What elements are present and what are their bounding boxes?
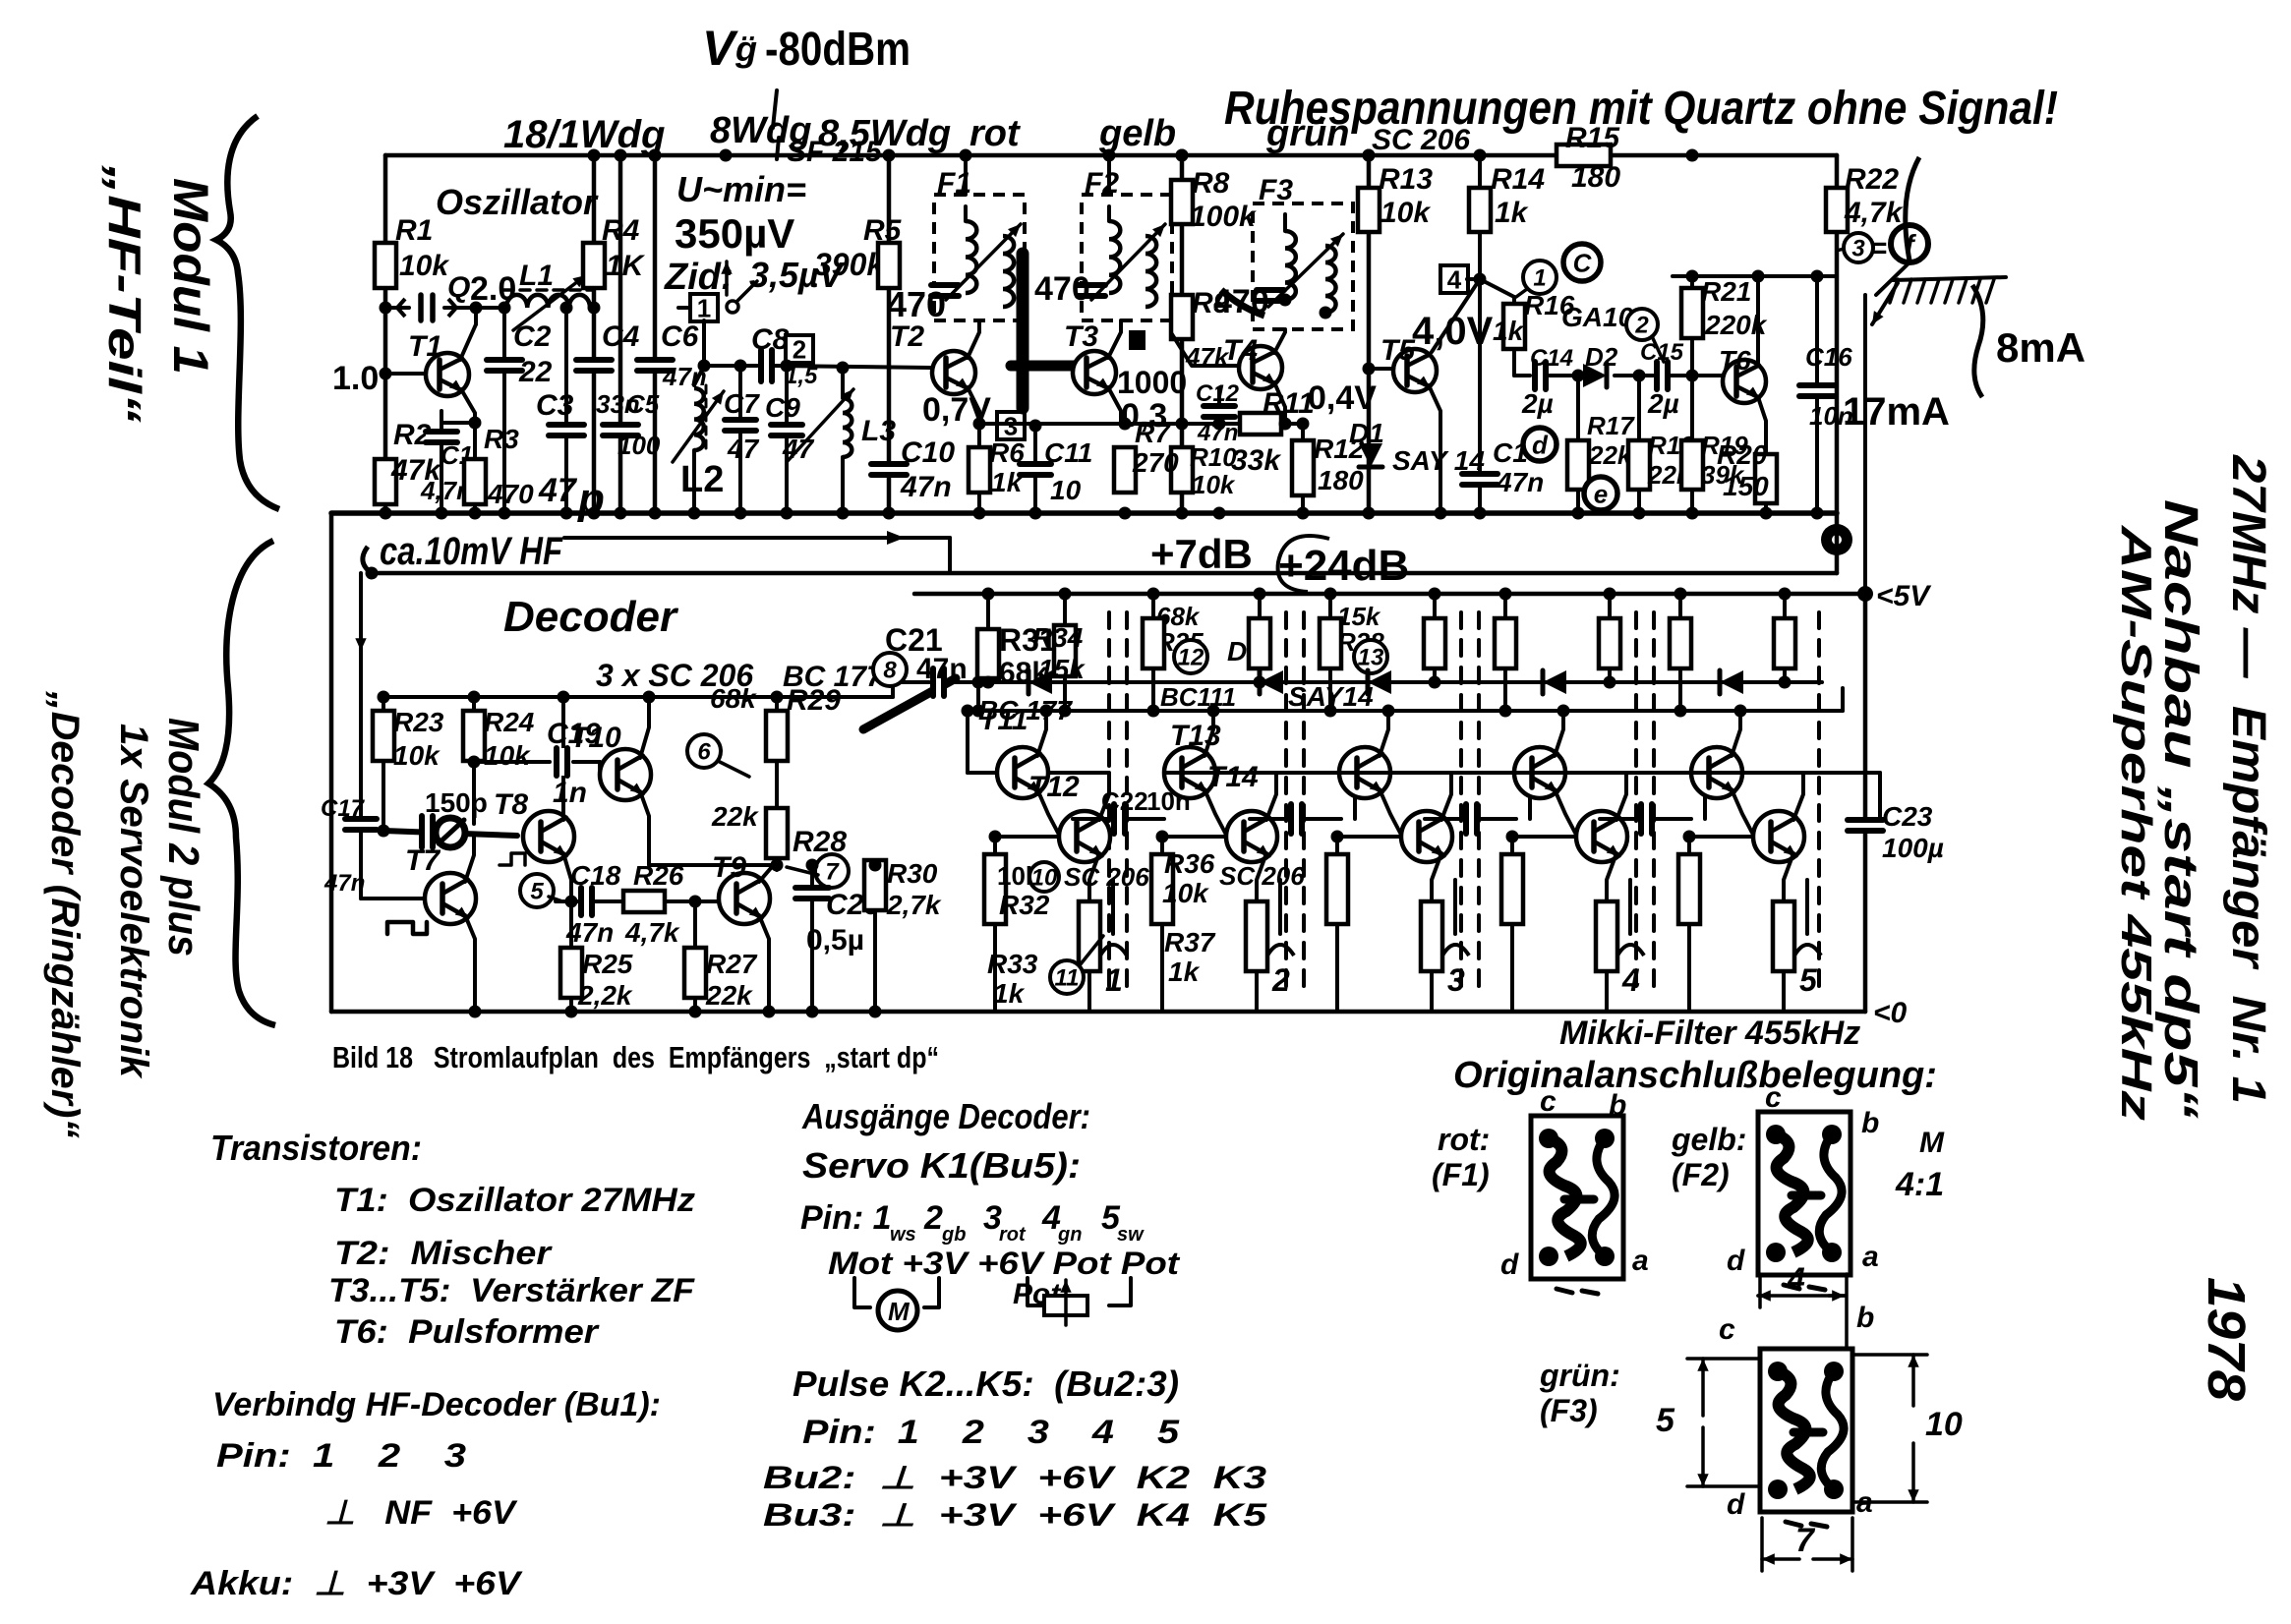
svg-text:5: 5 — [530, 879, 544, 905]
svg-text:1000: 1000 — [1117, 365, 1187, 400]
transistor lower stage 2 — [1226, 811, 1277, 862]
svg-text:Pin: 1 2 3 4 5: Pin: 1 2 3 4 5 — [802, 1414, 1180, 1451]
circled d — [1523, 428, 1557, 461]
wire thick link to C21 — [863, 678, 956, 729]
svg-text:4:1: 4:1 — [1895, 1166, 1944, 1203]
svg-text:C18: C18 — [570, 860, 621, 891]
svg-text:<0: <0 — [1873, 997, 1908, 1029]
circled 11 — [1050, 960, 1084, 994]
svg-text:22k: 22k — [711, 801, 759, 832]
wire ring diode bus — [978, 680, 1822, 684]
svg-text:U~min=: U~min= — [676, 169, 806, 209]
svg-text:rot:: rot: — [1438, 1122, 1490, 1157]
wire T8 collector — [561, 697, 565, 820]
capacitor 150p scribble — [419, 816, 435, 847]
left brace module 1 — [216, 116, 279, 509]
resistor R24 — [472, 697, 476, 711]
measure point box 1 — [678, 306, 691, 310]
svg-text:Mot +3V +6V Pot Pot: Mot +3V +6V Pot Pot — [828, 1246, 1181, 1281]
svg-text:T11: T11 — [979, 704, 1028, 736]
wire circled1 tap — [1516, 289, 1527, 297]
stage bias resistor 2 — [1160, 837, 1164, 854]
transistor lower stage 1 — [1059, 811, 1110, 862]
svg-text:1: 1 — [1533, 265, 1546, 292]
output pin 1 wire — [1111, 880, 1115, 934]
stage emitter resistor 3 — [1421, 901, 1442, 971]
wire lower emitter stage 5 — [1784, 853, 1793, 901]
wire F1 top connection — [964, 155, 968, 195]
svg-text:Akku: ⊥ +3V +6V: Akku: ⊥ +3V +6V — [190, 1565, 524, 1602]
svg-text:12: 12 — [1178, 645, 1204, 671]
F1 internal capacitor — [931, 282, 959, 298]
svg-text:2: 2 — [1271, 962, 1290, 998]
svg-text:R34: R34 — [1032, 622, 1084, 653]
wire upper base stage 5 — [1691, 771, 1880, 775]
svg-text:C10: C10 — [901, 436, 955, 469]
svg-text:2µ: 2µ — [1521, 388, 1554, 419]
marker blob on T3 collector — [1129, 330, 1145, 350]
svg-text:C9: C9 — [765, 392, 800, 423]
pullup resistor left of boundary 3 — [1433, 594, 1437, 618]
svg-text:R27: R27 — [706, 949, 758, 979]
coupling capacitor stage 3 — [1425, 817, 1461, 821]
wire decoder top feed line — [372, 571, 1837, 576]
svg-text:T3...T5: Verstärker ZF: T3...T5: Verstärker ZF — [328, 1272, 695, 1309]
svg-text:T14: T14 — [1207, 761, 1259, 793]
circled f — [1891, 225, 1928, 262]
wire T1 base — [385, 372, 426, 376]
inductor L3 — [841, 368, 845, 398]
svg-text:-80dBm: -80dBm — [765, 24, 911, 76]
output pin 4 wire — [1628, 880, 1632, 934]
resistor R27 — [693, 901, 697, 948]
dashed boundary stage 1 — [1107, 612, 1111, 993]
measure point box 4 — [1440, 264, 1468, 294]
transistor upper stage 2 — [1164, 747, 1215, 798]
svg-text:Pin: 1: Pin: 1 — [800, 1199, 892, 1237]
transistor T3 — [1073, 351, 1116, 394]
svg-text:c: c — [1719, 1313, 1735, 1346]
svg-text:a: a — [1632, 1245, 1649, 1277]
svg-text:7: 7 — [1795, 1522, 1816, 1559]
svg-text:T2: Mischer: T2: Mischer — [334, 1235, 553, 1272]
svg-text:T13: T13 — [1170, 720, 1221, 752]
svg-text:M: M — [1919, 1127, 1945, 1159]
coupling capacitor stage 4 — [1600, 817, 1636, 821]
wire upper emitter stage 5 — [1732, 789, 1753, 835]
svg-text:8: 8 — [883, 658, 897, 684]
svg-text:C12: C12 — [1196, 380, 1240, 407]
wire input feed column — [359, 573, 363, 816]
hatch symbol — [1893, 277, 2006, 280]
svg-text:SC 206: SC 206 — [1064, 862, 1149, 892]
svg-text:4: 4 — [1447, 264, 1462, 294]
wire upper base stage 3 — [1339, 771, 1530, 775]
svg-text:b: b — [1861, 1107, 1879, 1139]
wire R21 column — [1690, 276, 1694, 288]
filter F2 footprint box — [1758, 1112, 1850, 1275]
svg-text:ws: ws — [890, 1224, 916, 1246]
svg-text:b: b — [1856, 1302, 1874, 1334]
svg-text:T2: T2 — [890, 320, 924, 353]
stage emitter resistor 1 — [1079, 901, 1100, 971]
wire upper collector stage 1 — [1037, 711, 1046, 756]
svg-text:47n: 47n — [323, 870, 365, 897]
wire upper collector stage 5 — [1732, 711, 1740, 756]
svg-text:„HF-Teil“: „HF-Teil“ — [99, 164, 150, 423]
svg-text:100µ: 100µ — [1882, 833, 1944, 863]
output pin 5 wire — [1805, 880, 1809, 934]
wire upper base stage 1 — [968, 771, 997, 775]
svg-text:C11: C11 — [1044, 437, 1092, 468]
svg-text:47n: 47n — [1496, 467, 1544, 497]
svg-text:R17: R17 — [1587, 411, 1635, 440]
capacitor C9 — [785, 366, 789, 422]
svg-text:4,7k: 4,7k — [624, 917, 680, 948]
svg-text:47n: 47n — [1197, 420, 1238, 446]
circled 6 — [687, 734, 721, 768]
svg-text:AM-Superhet 455kHz: AM-Superhet 455kHz — [2112, 525, 2160, 1121]
svg-text:Q: Q — [447, 271, 470, 304]
wire T5 collector — [1432, 279, 1480, 352]
motor symbol — [854, 1278, 870, 1307]
resistor R26 (horizontal) — [623, 891, 665, 912]
svg-text:1k: 1k — [1168, 957, 1201, 987]
svg-text:d: d — [1532, 430, 1549, 459]
dashed boundary stage 4 — [1634, 612, 1638, 993]
svg-text:rot: rot — [999, 1224, 1027, 1246]
F3 secondary coil — [1325, 246, 1336, 313]
crystal Q1 — [385, 306, 409, 310]
circled e — [1584, 477, 1617, 510]
capacitor C5 — [603, 422, 638, 437]
svg-text:sw: sw — [1117, 1224, 1145, 1246]
F1 secondary coil — [1003, 236, 1014, 307]
circled 2 — [1626, 309, 1658, 340]
pullup resistor right of boundary 1 — [1151, 594, 1155, 618]
svg-text:2,2k: 2,2k — [577, 980, 633, 1011]
wire C21 row — [893, 680, 929, 684]
output pin 4 hook — [1617, 945, 1644, 956]
stage bias resistor 4 — [1510, 837, 1514, 854]
svg-text:5: 5 — [1656, 1402, 1675, 1439]
svg-text:T1: Oszillator 27MHz: T1: Oszillator 27MHz — [334, 1182, 695, 1219]
output pin 3 wire — [1453, 880, 1457, 934]
F3 dimension 10 — [1911, 1355, 1915, 1406]
svg-text:g̈: g̈ — [734, 29, 757, 69]
svg-text:10: 10 — [1031, 865, 1058, 892]
svg-text:13: 13 — [1358, 645, 1384, 671]
circled 1 — [1523, 261, 1557, 294]
svg-text:Nachbau „start dp5“: Nachbau „start dp5“ — [2154, 499, 2206, 1119]
svg-text:22: 22 — [518, 356, 553, 388]
svg-text:Modul 2 plus: Modul 2 plus — [159, 718, 207, 957]
wire 5V supply rail — [914, 592, 1865, 597]
stage bias resistor 3 — [1335, 837, 1339, 854]
resistor R25 — [569, 901, 573, 948]
wire to antenna ground — [1876, 262, 1909, 295]
capacitor C12 — [1217, 388, 1221, 403]
svg-text:4: 4 — [1621, 962, 1640, 998]
svg-text:47n: 47n — [916, 653, 968, 685]
resistor R16 — [1503, 304, 1525, 349]
capacitor C6 — [637, 357, 673, 373]
svg-text:R21: R21 — [1701, 276, 1751, 307]
svg-text:R10: R10 — [1190, 442, 1237, 472]
transistor T10 — [600, 749, 651, 800]
potentiometer symbol — [1028, 1278, 1042, 1305]
output pin 5 hook — [1794, 945, 1821, 956]
wire lower base stage 1 — [995, 835, 1059, 839]
capacitor C11 — [1033, 426, 1037, 461]
svg-text:gn: gn — [1057, 1224, 1082, 1246]
F2 primary coil — [1107, 206, 1111, 221]
svg-text:Decoder: Decoder — [503, 593, 679, 641]
svg-text:C3: C3 — [536, 389, 574, 422]
wire T6 collector row — [1673, 274, 1837, 278]
resistor R28 22k — [775, 761, 779, 808]
svg-text:M: M — [888, 1297, 911, 1326]
svg-text:R25: R25 — [582, 949, 633, 979]
resistor R6 — [969, 447, 990, 493]
svg-text:10k: 10k — [484, 740, 531, 771]
svg-text:10k: 10k — [399, 250, 449, 282]
wire tap line with arrow — [564, 536, 950, 540]
left brace module 2 — [208, 541, 275, 1025]
svg-text:R33: R33 — [987, 949, 1038, 979]
filter F3 footprint box — [1760, 1349, 1852, 1512]
resistor R3 — [464, 459, 486, 504]
capacitor C17 — [345, 816, 377, 832]
svg-text:180: 180 — [1318, 465, 1364, 495]
tick marks below Vg — [773, 90, 777, 128]
wire T1 emitter — [461, 389, 475, 423]
F2 internal capacitor — [1078, 282, 1105, 298]
svg-text:Bu3: ⊥ +3V +6V K4 K5: Bu3: ⊥ +3V +6V K4 K5 — [763, 1497, 1268, 1533]
svg-text:Originalanschlußbelegung:: Originalanschlußbelegung: — [1453, 1055, 1937, 1096]
coupling capacitor stage 2 — [1250, 817, 1286, 821]
svg-text:1k: 1k — [991, 467, 1024, 497]
capacitor C7 — [738, 366, 742, 417]
measure point box 3 — [997, 411, 1025, 440]
arrow through L1 (variable) — [513, 275, 586, 330]
F1 primary coil — [964, 206, 968, 221]
stage emitter resistor 5 — [1773, 901, 1794, 971]
transistor lower stage 3 — [1401, 811, 1452, 862]
transistor upper stage 5 — [1691, 747, 1742, 798]
resistor R30 — [873, 863, 877, 867]
circled 7 — [815, 854, 849, 888]
svg-text:8mA: 8mA — [1996, 324, 2085, 371]
wire upper collector stage 4 — [1555, 711, 1563, 756]
wire outer left border — [329, 513, 334, 1012]
svg-text:a: a — [1862, 1241, 1879, 1273]
circled 8 — [873, 653, 907, 686]
svg-text:<5V: <5V — [1876, 580, 1932, 612]
resistor R21 — [1681, 288, 1703, 338]
output pin 3 hook — [1442, 945, 1469, 956]
pullup resistor left of boundary 2 — [1258, 594, 1262, 618]
dashed boundary stage 3 — [1459, 612, 1463, 993]
diode stage 5 — [1720, 670, 1743, 694]
svg-text:1x Servoelektronik: 1x Servoelektronik — [112, 724, 155, 1079]
wire T3 collector — [1108, 320, 1121, 358]
wire upper collector stage 3 — [1380, 711, 1388, 756]
svg-text:1k: 1k — [993, 978, 1026, 1009]
svg-text:Oszillator: Oszillator — [436, 182, 599, 222]
wire R13/D1 branch — [1367, 155, 1372, 513]
wire lower base stage 4 — [1512, 835, 1576, 839]
svg-text:2,7k: 2,7k — [886, 890, 942, 920]
resistor R2 — [375, 459, 396, 504]
svg-text:grün:: grün: — [1539, 1358, 1620, 1393]
svg-text:47: 47 — [538, 472, 578, 509]
wire T7 emitter — [465, 915, 475, 1012]
svg-text:rot: rot — [969, 113, 1021, 154]
resistor R15 (in series with top rail) — [1557, 145, 1611, 166]
junction dots on top rail — [649, 149, 662, 162]
svg-text:10n: 10n — [1146, 786, 1191, 816]
resistor R14 — [1469, 188, 1491, 232]
F3 dimension 7 — [1762, 1557, 1799, 1561]
diode D2 — [1583, 364, 1607, 387]
filter F2 dashed box — [1082, 195, 1172, 320]
svg-text:R3: R3 — [484, 424, 519, 454]
stage emitter resistor 4 — [1596, 901, 1617, 971]
wire lower collector stage 1 — [1048, 773, 1109, 820]
svg-text:470: 470 — [487, 479, 534, 509]
svg-text:L2: L2 — [680, 459, 724, 500]
svg-text:10k: 10k — [1162, 878, 1209, 908]
capacitor C8 — [758, 350, 774, 381]
wire circled2 tap — [1652, 336, 1664, 362]
svg-text:R36: R36 — [1164, 848, 1215, 879]
capacitor C19 — [554, 748, 569, 776]
wire R8 branch — [1180, 155, 1185, 513]
arrow through F2 — [1091, 224, 1165, 300]
svg-text:b: b — [1609, 1089, 1626, 1122]
wire T3 emitter — [1108, 387, 1121, 424]
output pin 1 hook — [1100, 945, 1127, 956]
svg-text:18/1Wdg: 18/1Wdg — [503, 113, 665, 156]
svg-text:3: 3 — [1851, 236, 1865, 262]
capacitor C16 — [1815, 276, 1819, 382]
diode stage 4 — [1543, 670, 1566, 694]
svg-text:D1: D1 — [1349, 418, 1384, 448]
capacitor C3 — [564, 308, 568, 422]
junction dots on bottom bus — [380, 507, 392, 520]
svg-text:33k: 33k — [1231, 444, 1281, 477]
svg-text:7: 7 — [825, 859, 840, 886]
F3 dimension 5 — [1701, 1359, 1705, 1416]
wire vertical C6 branch — [653, 155, 658, 513]
wire T10 collector — [640, 697, 649, 758]
capacitor C23 — [1848, 817, 1883, 833]
svg-text:1978: 1978 — [2197, 1277, 2256, 1401]
transistor T5 — [1393, 349, 1437, 392]
svg-text:F3: F3 — [1259, 174, 1293, 206]
svg-text:R23: R23 — [393, 707, 444, 737]
pulse symbol at T8 — [499, 853, 525, 865]
pullup resistor left of boundary 4 — [1608, 594, 1612, 618]
svg-text:Ausgänge Decoder:: Ausgänge Decoder: — [801, 1096, 1090, 1136]
svg-text:180: 180 — [1571, 161, 1620, 194]
svg-text:V: V — [702, 21, 738, 76]
svg-text:(F1): (F1) — [1432, 1157, 1490, 1192]
wire detector row — [1512, 349, 1516, 376]
svg-text:e: e — [1594, 479, 1608, 508]
wire T10 base — [598, 771, 602, 775]
wire upper collector stage 2 — [1204, 711, 1213, 756]
F3 internal capacitor — [1257, 287, 1284, 303]
svg-text:T7: T7 — [405, 844, 441, 877]
svg-text:d: d — [1727, 1488, 1745, 1521]
svg-text:L3: L3 — [861, 415, 896, 447]
wire left border of module 1 — [383, 155, 388, 513]
F3 dimension 4 — [1758, 1294, 1768, 1298]
resistor R1 — [375, 243, 396, 288]
wire junction to R16 — [1480, 279, 1514, 297]
resistor R9 — [1171, 295, 1193, 339]
svg-text:3: 3 — [1447, 962, 1465, 998]
svg-text:5: 5 — [1799, 962, 1818, 998]
capacitor C10 — [871, 461, 907, 477]
wire upper emitter stage 2 — [1204, 789, 1226, 835]
svg-text:Mikki-Filter 455kHz: Mikki-Filter 455kHz — [1559, 1015, 1860, 1052]
wire lower emitter stage 2 — [1257, 853, 1266, 901]
wire lower collector stage 5 — [1742, 773, 1803, 820]
svg-text:R32: R32 — [999, 890, 1050, 920]
capacitor C4 — [576, 357, 612, 373]
pullup resistor right of boundary 4 — [1678, 594, 1682, 618]
svg-text:Transistoren:: Transistoren: — [210, 1128, 422, 1168]
resistor R20 — [1755, 454, 1777, 503]
svg-text:47: 47 — [727, 434, 760, 464]
wire T7 collector — [465, 834, 474, 882]
dashed boundary stage 5 — [1817, 612, 1821, 993]
wire F2 top connection — [1107, 155, 1111, 195]
diode stage 3 — [1368, 670, 1391, 694]
circled 13 — [1354, 640, 1387, 673]
svg-text:1: 1 — [1105, 962, 1123, 998]
svg-text:d: d — [1500, 1248, 1519, 1281]
svg-text:68k: 68k — [710, 683, 757, 714]
svg-text:22k: 22k — [705, 980, 753, 1011]
wire T4 emitter — [1274, 382, 1285, 424]
svg-text:C16: C16 — [1805, 342, 1852, 372]
wire T9 emitter — [759, 915, 769, 1012]
wire T1 collector to node — [460, 324, 476, 360]
svg-text:Pulse K2...K5: (Bu2:3): Pulse K2...K5: (Bu2:3) — [793, 1363, 1179, 1404]
svg-text:C22: C22 — [1101, 786, 1148, 816]
wire T2 emitter — [968, 387, 979, 447]
stage bias resistor 5 — [1687, 837, 1691, 854]
svg-text:270: 270 — [1132, 447, 1179, 478]
svg-text:2: 2 — [793, 334, 806, 364]
svg-text:C14: C14 — [1530, 345, 1573, 372]
svg-text:1k: 1k — [1495, 197, 1529, 229]
output pin 2 wire — [1278, 880, 1282, 934]
wire L2 column — [702, 320, 706, 366]
svg-text:C8: C8 — [751, 323, 790, 356]
arrow through F3 — [1268, 234, 1343, 307]
arrow through L2 (variable) — [673, 391, 724, 462]
resistor R19 — [1690, 376, 1694, 440]
wire 0V bottom rail — [331, 1010, 1865, 1015]
svg-text:4,7k: 4,7k — [1844, 197, 1904, 229]
svg-text:(F3): (F3) — [1540, 1393, 1598, 1428]
diode D4 — [1260, 670, 1283, 694]
